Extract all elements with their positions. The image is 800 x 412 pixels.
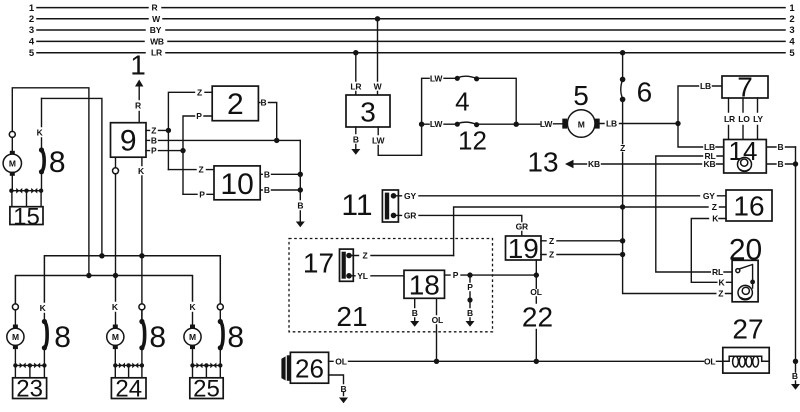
svg-text:KB: KB	[588, 159, 600, 169]
svg-text:K: K	[712, 214, 719, 224]
svg-text:5: 5	[573, 80, 589, 111]
wire LB to box 14	[678, 124, 724, 153]
wire LB to box 7	[678, 81, 722, 124]
svg-text:1: 1	[130, 50, 146, 81]
svg-text:LW: LW	[372, 136, 386, 146]
svg-text:LB: LB	[606, 119, 617, 129]
wire 7 LO output	[738, 98, 750, 140]
motor 15 group: terminal circle	[9, 88, 89, 276]
svg-text:1: 1	[789, 3, 795, 14]
wire switch bus (lower row switches)	[44, 256, 220, 304]
box 14	[724, 136, 767, 173]
wire P branch to box 10	[183, 189, 214, 199]
wire 10 B output lower	[260, 185, 300, 195]
svg-text:P: P	[196, 111, 202, 121]
wire RL box 14 to box 20	[656, 151, 736, 277]
ground arrow B bus	[296, 222, 305, 228]
svg-text:YL: YL	[357, 271, 367, 281]
bus line 2 (W)	[29, 14, 795, 25]
box 9	[111, 123, 147, 158]
ground arrow 26	[339, 398, 348, 404]
motor 5	[562, 80, 599, 137]
connector row 15	[9, 188, 43, 207]
bus line 5 (LR)	[29, 48, 796, 59]
wire 26 OL output	[329, 356, 723, 366]
wire 5 LB output	[600, 119, 678, 129]
ground arrow right B bus	[791, 384, 800, 390]
dashed box 21	[289, 239, 493, 333]
svg-text:LB: LB	[700, 81, 711, 91]
junction switch 12 right node	[514, 122, 519, 127]
junction motor-bus / 15	[86, 273, 91, 278]
svg-text:B: B	[341, 384, 347, 394]
svg-text:GR: GR	[404, 210, 416, 220]
box 7	[722, 72, 768, 103]
svg-text:LR: LR	[724, 114, 735, 124]
junction switch-bus / 9	[139, 253, 144, 258]
svg-text:Z: Z	[620, 143, 625, 153]
svg-text:Z: Z	[199, 165, 204, 175]
junction OL/18	[434, 359, 439, 364]
junction 9P	[180, 148, 185, 153]
svg-text:B: B	[778, 159, 784, 169]
wire B bus to ground	[297, 140, 303, 221]
wire 19 Z output lower	[541, 250, 623, 260]
svg-text:M: M	[9, 159, 16, 169]
junction OL 19/P	[534, 272, 539, 277]
svg-text:4: 4	[455, 87, 469, 117]
bus line 4 (WB)	[29, 36, 796, 47]
svg-text:M: M	[578, 119, 585, 129]
svg-text:24: 24	[115, 376, 142, 403]
wire Z branch to box 10	[168, 165, 214, 175]
junction 9Z	[166, 128, 171, 133]
wire LR tap to box 3	[350, 50, 361, 95]
motor M (group 24)	[107, 325, 124, 366]
svg-text:M: M	[12, 332, 19, 342]
wire 7 LR output	[724, 98, 735, 140]
box 16	[726, 190, 772, 222]
box 2	[212, 86, 258, 121]
svg-text:LY: LY	[753, 114, 763, 124]
ground arrow P chain	[466, 321, 475, 327]
svg-text:18: 18	[409, 269, 440, 300]
wire motor bus (lower row motors)	[15, 276, 192, 304]
svg-text:26: 26	[295, 353, 324, 383]
horn 26 speaker symbol	[281, 355, 290, 381]
svg-text:8: 8	[49, 146, 66, 179]
svg-text:GY: GY	[703, 191, 715, 201]
svg-text:B: B	[353, 135, 359, 145]
wire right B bus to ground	[792, 147, 798, 384]
motor 23 group terminal	[12, 304, 18, 325]
junction OL/22	[534, 359, 539, 364]
svg-text:6: 6	[637, 77, 653, 108]
junction 9B/2B	[274, 138, 279, 143]
wire K 16 to 20	[691, 214, 753, 288]
svg-text:OL: OL	[432, 315, 443, 325]
wire 3 LW output	[372, 124, 422, 155]
svg-text:WB: WB	[150, 36, 164, 46]
junction LW node	[419, 122, 424, 127]
svg-text:13: 13	[527, 147, 558, 178]
svg-text:P: P	[453, 270, 459, 280]
svg-text:12: 12	[458, 126, 487, 156]
svg-text:P: P	[151, 146, 157, 156]
wire Z branch to box 2	[168, 87, 212, 169]
svg-text:K: K	[37, 128, 44, 138]
svg-text:2: 2	[227, 88, 244, 121]
svg-text:5: 5	[789, 48, 795, 59]
svg-text:LR: LR	[151, 48, 162, 58]
svg-text:3: 3	[360, 97, 376, 128]
svg-text:22: 22	[522, 302, 553, 333]
svg-text:R: R	[152, 3, 158, 13]
svg-text:KB: KB	[704, 159, 716, 169]
svg-text:LW: LW	[430, 73, 444, 83]
wire 7 LY output	[753, 98, 763, 140]
box 15	[10, 203, 43, 230]
wire Z node to box 20	[623, 207, 738, 299]
svg-text:23: 23	[16, 376, 43, 403]
resistor coil 27	[723, 314, 769, 374]
switch icon in box 20	[736, 265, 755, 289]
wire 9 bottom-left (to motor bus)	[112, 157, 119, 325]
svg-text:4: 4	[789, 37, 795, 48]
junction switch-bus / 15	[99, 253, 104, 258]
wire 14 B output upper	[766, 142, 795, 152]
svg-text:K: K	[138, 166, 145, 176]
svg-text:LW: LW	[430, 119, 444, 129]
node 13 arrow KB	[527, 147, 723, 178]
pump icon box 14	[738, 157, 752, 171]
wire 18 P output	[445, 270, 537, 280]
svg-text:7: 7	[737, 72, 753, 103]
svg-text:Z: Z	[718, 289, 723, 299]
switch 12	[422, 119, 517, 155]
svg-text:M: M	[189, 332, 196, 342]
svg-text:W: W	[374, 82, 383, 92]
svg-text:9: 9	[120, 125, 137, 158]
box 3	[346, 95, 390, 128]
svg-text:GY: GY	[404, 191, 416, 201]
svg-text:Z: Z	[712, 202, 717, 212]
svg-text:B: B	[261, 98, 267, 108]
wire P to B ground chain	[467, 275, 473, 320]
ground arrow 18	[410, 321, 419, 327]
junction Z19 upper	[620, 238, 625, 243]
box 26	[290, 352, 328, 383]
junction LB node	[675, 121, 680, 126]
wire 14 B output lower	[766, 159, 795, 169]
svg-text:3: 3	[789, 25, 794, 36]
switch 8 (group 15)	[37, 98, 102, 255]
svg-text:B: B	[792, 371, 798, 381]
svg-text:P: P	[199, 189, 205, 199]
wire Z 17	[352, 251, 454, 261]
junction OL/27/B	[793, 359, 798, 364]
pump icon box 20	[738, 285, 752, 299]
svg-text:OL: OL	[704, 356, 715, 366]
svg-text:27: 27	[732, 314, 763, 345]
svg-text:B: B	[412, 308, 418, 318]
junction Z node to 16	[620, 204, 625, 209]
svg-text:2: 2	[789, 14, 794, 25]
svg-text:M: M	[112, 332, 119, 342]
svg-text:B: B	[264, 185, 270, 195]
svg-text:19: 19	[508, 233, 539, 264]
wire W tap to box 3	[374, 16, 383, 95]
connector row 23	[13, 363, 46, 378]
box 18	[404, 269, 445, 300]
svg-text:2: 2	[29, 14, 34, 25]
svg-text:LR: LR	[350, 82, 361, 92]
svg-text:15: 15	[13, 203, 40, 230]
svg-text:B: B	[778, 142, 784, 152]
svg-text:Z: Z	[151, 125, 156, 135]
box 25	[190, 376, 223, 403]
svg-text:K: K	[719, 277, 726, 287]
svg-text:P: P	[467, 282, 473, 292]
svg-text:Z: Z	[197, 87, 202, 97]
svg-text:R: R	[135, 101, 141, 111]
wire 18 OL output	[432, 298, 443, 361]
box 24	[111, 376, 146, 403]
box 20	[729, 234, 762, 302]
switch 8 (group 24)	[139, 310, 166, 365]
motor M (group 23)	[7, 325, 24, 366]
svg-text:K: K	[40, 303, 47, 313]
svg-text:8: 8	[227, 321, 244, 354]
wire 18 B output to ground	[412, 298, 418, 320]
wire 19 Z output upper	[541, 236, 623, 246]
svg-text:B: B	[297, 201, 303, 211]
svg-text:5: 5	[29, 48, 35, 59]
wire 3 B output to ground	[353, 127, 359, 149]
svg-text:GR: GR	[516, 222, 528, 232]
box 10	[214, 166, 260, 201]
svg-text:OL: OL	[335, 356, 346, 366]
svg-text:OL: OL	[530, 287, 541, 297]
svg-text:Z: Z	[363, 251, 368, 261]
junction Z19 lower	[620, 252, 625, 257]
box 23	[13, 376, 47, 403]
svg-text:Z: Z	[549, 236, 554, 246]
svg-text:4: 4	[29, 37, 35, 48]
wire 9 B output to B bus	[146, 135, 300, 145]
svg-text:W: W	[152, 14, 161, 24]
svg-text:1: 1	[29, 3, 35, 14]
switch 8 (group 23)	[40, 303, 71, 366]
svg-text:B: B	[151, 135, 157, 145]
wire 22 OL vertical	[522, 260, 553, 361]
svg-text:8: 8	[54, 321, 71, 354]
svg-text:10: 10	[220, 168, 253, 201]
motor M (group 15)	[3, 137, 21, 190]
svg-text:16: 16	[733, 191, 764, 222]
switch 6	[620, 50, 652, 207]
svg-text:K: K	[190, 302, 197, 312]
ground arrow box 3	[351, 149, 360, 155]
svg-text:21: 21	[336, 301, 367, 332]
motor M (group 25)	[184, 325, 201, 366]
connector row 25	[190, 363, 222, 378]
wire Z to box 16	[454, 202, 726, 256]
connector row 24	[113, 363, 144, 378]
svg-text:RL: RL	[712, 267, 723, 277]
wire 9 P output	[146, 146, 183, 156]
wire 10 B output upper	[260, 169, 300, 179]
wire GR 11 to 19	[396, 210, 528, 236]
junction P node	[467, 272, 472, 277]
svg-text:11: 11	[341, 189, 372, 222]
connector 11	[341, 189, 398, 222]
svg-text:8: 8	[149, 321, 166, 354]
bus line 1 (R)	[29, 3, 796, 14]
svg-text:K: K	[112, 302, 119, 312]
switch 8 (group 25) terminal	[217, 304, 244, 366]
svg-text:25: 25	[193, 376, 220, 403]
wire 9 bottom-right K (to switch bus)	[138, 157, 145, 321]
junction motor-bus / 9	[113, 273, 118, 278]
svg-text:B: B	[467, 308, 473, 318]
svg-text:B: B	[264, 169, 270, 179]
svg-text:17: 17	[303, 248, 334, 279]
svg-text:3: 3	[29, 25, 34, 36]
wire GY 11 to 16	[396, 191, 726, 201]
connector 17	[303, 248, 353, 282]
svg-text:Z: Z	[549, 250, 554, 260]
wire 2 B output	[258, 98, 276, 141]
svg-text:LO: LO	[738, 114, 750, 124]
switch 4	[422, 73, 517, 124]
wire LW to motor 5	[516, 119, 562, 129]
motor 25 terminal K	[190, 302, 197, 325]
svg-text:BY: BY	[150, 25, 162, 35]
box 19	[506, 233, 542, 264]
wire 9 Z output	[146, 125, 168, 135]
wire YL 17 to 18	[352, 271, 405, 281]
wire P branch to box 2	[183, 111, 212, 194]
wire 26 B output to ground	[329, 375, 347, 396]
node 1 arrow (feed R)	[130, 50, 146, 123]
svg-text:LW: LW	[540, 119, 554, 129]
bus line 3 (BY)	[29, 25, 795, 36]
